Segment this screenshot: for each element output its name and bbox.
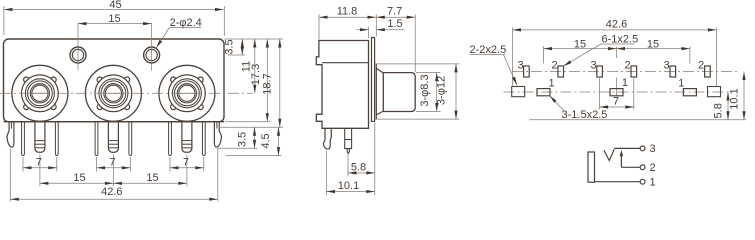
svg-text:3.5: 3.5 (224, 39, 236, 54)
body bottom edge solid (4, 121, 225, 123)
svg-text:17.3: 17.3 (250, 64, 262, 85)
svg-text:4.5: 4.5 (260, 133, 272, 148)
wide center pins front (35, 122, 45, 153)
svg-text:15: 15 (73, 172, 85, 184)
mounting hole H1 (70, 47, 86, 63)
svg-text:15: 15 (146, 172, 158, 184)
front body outline (4, 39, 225, 122)
jack J3 front (159, 65, 215, 121)
centerline pads row 2-3 (512, 71, 740, 73)
svg-text:1: 1 (622, 77, 628, 89)
thin pins front (22, 122, 25, 156)
jack J2 front (85, 65, 141, 121)
chamfer bottom (376, 111, 383, 115)
chamfer top (376, 68, 383, 73)
tip spring contact V (604, 149, 614, 160)
dim 3.5 bottom right (254, 127, 256, 148)
dim 18.7 (279, 39, 281, 127)
barrel phi8.3 (383, 73, 415, 112)
phi12 cylinder edge (375, 64, 377, 119)
dim 1.5 (368, 27, 370, 39)
svg-text:3: 3 (517, 60, 523, 72)
switch arm with arrow (620, 154, 622, 168)
svg-text:3-φ8.3: 3-φ8.3 (419, 74, 431, 106)
ext lines phi dims (416, 72, 441, 74)
centerline hole H2 (151, 23, 153, 71)
svg-text:2: 2 (698, 60, 704, 72)
svg-text:7: 7 (183, 157, 189, 169)
dim 11 (254, 39, 256, 93)
svg-text:3: 3 (590, 60, 596, 72)
dim 10.1 (326, 151, 328, 195)
terminal 3 wire (614, 147, 640, 149)
outer snap pads (512, 87, 525, 97)
dim 15 top (78, 23, 152, 25)
dim 15 bottom x2 (40, 182, 114, 184)
dim 17.3 (266, 39, 268, 122)
svg-text:15: 15 (574, 38, 586, 50)
svg-text:7: 7 (613, 95, 619, 107)
dim 5.8 (347, 155, 349, 177)
svg-text:42.6: 42.6 (101, 186, 122, 198)
dim 15 x2 footprint (543, 46, 545, 63)
flange plate (372, 38, 375, 122)
dim 42.6 footprint (512, 28, 514, 87)
side front pin (345, 128, 352, 153)
dim 7.7 (414, 15, 416, 73)
svg-text:7: 7 (36, 157, 42, 169)
dim 5.8 footprint (727, 92, 729, 120)
svg-text:15: 15 (647, 38, 659, 50)
side hook leg (323, 128, 331, 149)
pin1 pads (537, 89, 550, 96)
svg-text:7.7: 7.7 (387, 6, 402, 18)
svg-text:5.8: 5.8 (351, 162, 366, 174)
dim 45 (3, 6, 5, 35)
bottom extension lines front (22, 157, 24, 172)
right side extension lines front (224, 38, 283, 40)
centerline pads row 1 (504, 91, 732, 93)
svg-text:15: 15 (108, 13, 120, 25)
side body outline (316, 41, 368, 129)
terminal circle 3 (640, 146, 645, 151)
jack sleeve rect (588, 152, 595, 182)
svg-text:2: 2 (624, 60, 630, 72)
centerline through jacks (0, 92, 253, 94)
dim 42.6 front (10, 198, 218, 200)
dim 11.8 (318, 15, 320, 41)
svg-text:3: 3 (663, 60, 669, 72)
dim 10.1 footprint (743, 72, 745, 120)
terminal circle 1 (640, 179, 645, 184)
mounting hole H2 (144, 47, 160, 63)
side body step line (322, 62, 369, 64)
svg-text:7: 7 (109, 157, 115, 169)
svg-text:42.6: 42.6 (606, 19, 627, 31)
dim 3.5 top right (241, 39, 243, 55)
svg-text:2: 2 (650, 162, 656, 174)
hook leg left (7, 122, 14, 147)
terminal circle 2 (640, 165, 645, 170)
svg-text:3-φ12: 3-φ12 (436, 76, 448, 105)
terminal 2 wire (621, 166, 640, 168)
svg-text:18.7: 18.7 (262, 73, 274, 94)
svg-text:2-2x2.5: 2-2x2.5 (470, 44, 507, 56)
hook leg right (214, 122, 221, 147)
svg-text:5.8: 5.8 (712, 103, 724, 118)
jack J1 front (12, 65, 68, 121)
svg-text:1: 1 (548, 78, 554, 90)
centerline hole H1 (77, 23, 79, 71)
svg-text:10.1: 10.1 (728, 88, 740, 109)
dim 7 x3 (23, 167, 57, 169)
dim 3-phi12 (455, 64, 457, 119)
dim 7 footprint (599, 78, 601, 110)
svg-text:45: 45 (109, 0, 121, 11)
dim 4.5 bottom right (278, 127, 280, 155)
jack2 center stub (616, 78, 618, 97)
svg-text:10.1: 10.1 (338, 180, 359, 192)
svg-text:3-1.5x2.5: 3-1.5x2.5 (562, 109, 608, 121)
svg-text:1: 1 (650, 177, 656, 189)
svg-text:11.8: 11.8 (337, 6, 358, 18)
svg-text:1.5: 1.5 (387, 18, 402, 30)
top pads 3/2 (524, 66, 530, 77)
svg-text:2: 2 (551, 60, 557, 72)
terminal 1 wire (595, 181, 641, 183)
svg-text:1: 1 (678, 78, 684, 90)
dim 3-phi8.3 (436, 73, 438, 112)
svg-text:3.5: 3.5 (237, 132, 249, 147)
svg-text:3: 3 (650, 143, 656, 155)
